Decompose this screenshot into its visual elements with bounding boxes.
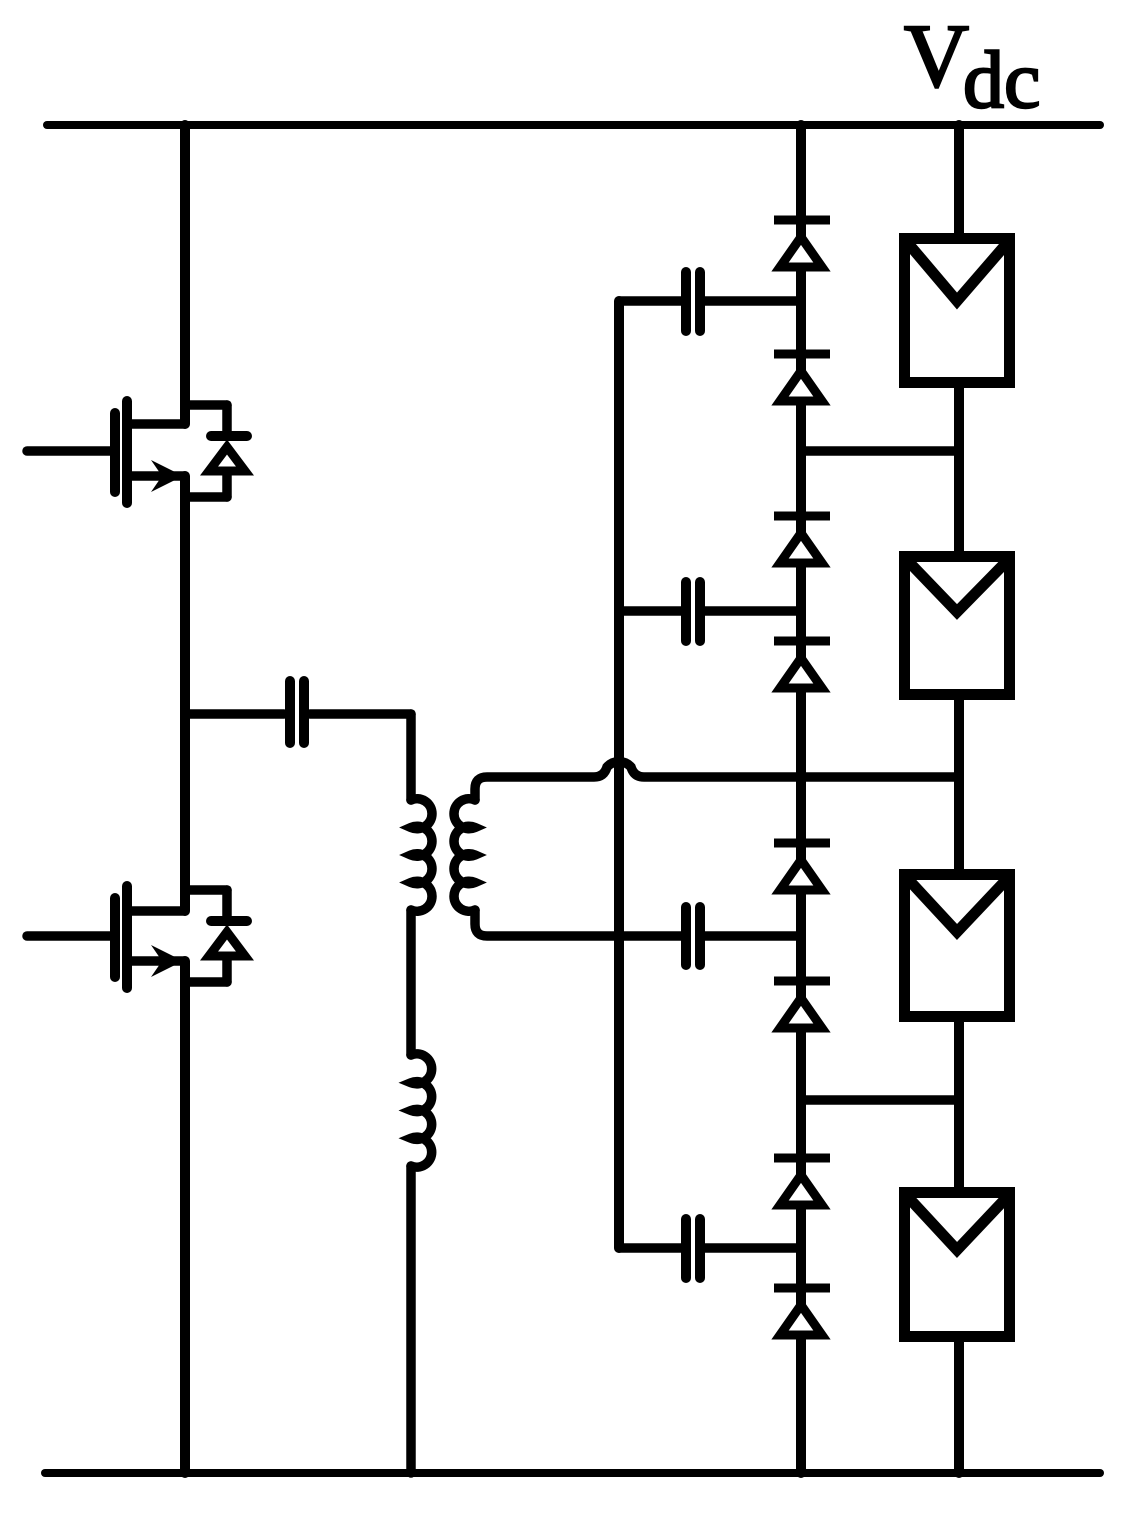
inductor Lm (series inductor) bbox=[411, 1054, 432, 1167]
capacitor C3 bbox=[686, 907, 801, 965]
wire junction diode chain to PV node 1 bbox=[801, 446, 959, 456]
diode D4 bbox=[774, 641, 830, 688]
capacitor Cb (blocking capacitor) bbox=[185, 681, 411, 743]
wire PV string P3-P4 bbox=[954, 1022, 964, 1187]
svg-text:dc: dc bbox=[963, 34, 1040, 125]
diode D8 bbox=[774, 1288, 830, 1335]
wire left rail upper (top bus to Q1 drain) bbox=[180, 125, 190, 424]
node Vdc label bbox=[904, 7, 1040, 125]
wire primary drop bbox=[406, 714, 416, 800]
wire secondary bottom lead bbox=[475, 910, 681, 936]
wire left rail lower (Q2 source to bottom bus) bbox=[180, 961, 190, 1473]
body diode of Q2 bbox=[185, 890, 247, 982]
diode D1 bbox=[774, 220, 830, 267]
PV module PV3 bbox=[905, 875, 1010, 1017]
wire capacitor bus vertical bbox=[614, 301, 624, 1248]
inductor transformer secondary winding bbox=[454, 799, 475, 912]
transistor Q2 (lower MOSFET) bbox=[27, 886, 185, 988]
body diode of Q1 bbox=[185, 405, 247, 497]
svg-text:V: V bbox=[904, 7, 969, 106]
wire top bus Vdc bbox=[47, 121, 1100, 129]
diode D6 bbox=[774, 981, 830, 1028]
transistor Q1 (upper MOSFET) bbox=[27, 401, 185, 503]
wire PV string bottom bbox=[954, 1342, 964, 1473]
wire PV string vertical top bbox=[954, 125, 964, 233]
inductor transformer primary winding bbox=[411, 799, 432, 912]
diode D5 bbox=[774, 843, 830, 890]
wire junction diode chain to PV node 3 bbox=[801, 1095, 959, 1105]
PV module PV1 bbox=[905, 239, 1010, 383]
wire left rail middle (Q1 source to Q2 drain) bbox=[180, 476, 190, 911]
capacitor C4 bbox=[619, 1219, 801, 1278]
PV module PV2 bbox=[905, 557, 1010, 695]
diode D2 bbox=[774, 354, 830, 401]
wire PV string P1-P2 bbox=[954, 388, 964, 551]
diode D7 bbox=[774, 1158, 830, 1205]
capacitor C1 bbox=[619, 272, 801, 331]
wire between primary and series inductor bbox=[406, 910, 416, 1055]
wire secondary top to mid node (with hop over cap bus) bbox=[475, 762, 959, 800]
capacitor C2 bbox=[619, 582, 801, 641]
PV module PV4 bbox=[905, 1193, 1010, 1337]
wire inductor to bottom bus bbox=[406, 1166, 416, 1473]
wire diode chain vertical bbox=[796, 125, 806, 1473]
wire PV string P2-P3 bbox=[954, 700, 964, 869]
diode D3 bbox=[774, 516, 830, 563]
wire bottom bus bbox=[45, 1469, 1100, 1477]
